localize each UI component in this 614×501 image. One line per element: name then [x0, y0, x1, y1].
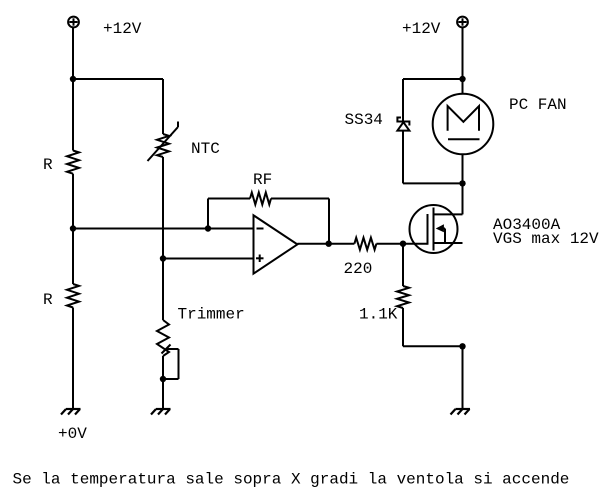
- wire node C down to trimmer: [162, 259, 164, 321]
- wire feedback right vertical: [328, 199, 330, 244]
- wire source node to ground: [462, 346, 464, 409]
- wire NTC branch top down to NTC: [162, 79, 164, 134]
- wire node A to NTC branch top: [73, 78, 163, 80]
- node fan bottom junction: [459, 180, 465, 186]
- wire node A down to R1: [72, 79, 74, 151]
- svg-text:SS34: SS34: [345, 111, 383, 129]
- node feedback tap junction: [205, 225, 211, 231]
- svg-text:Trimmer: Trimmer: [178, 306, 245, 324]
- svg-text:+12V: +12V: [402, 20, 441, 38]
- svg-text:R: R: [43, 291, 53, 309]
- terminal +12V left: [68, 17, 79, 28]
- wire node B down to R2: [72, 229, 74, 285]
- svg-text:R: R: [43, 156, 53, 174]
- diode D1 SS34: [397, 118, 409, 131]
- wire trimmer to ground: [162, 379, 164, 409]
- wire gate node down to 1.1K: [402, 244, 404, 286]
- op-amp U1: [254, 215, 298, 273]
- wire R2 to ground: [72, 308, 74, 410]
- node trimmer-wiper junction: [160, 376, 166, 382]
- wire fan top node to diode branch: [403, 78, 463, 80]
- wire node C to op-amp non-inverting input: [163, 258, 254, 260]
- svg-text:+0V: +0V: [58, 425, 87, 443]
- wire 220 to gate node: [376, 243, 403, 245]
- node output junction: [326, 241, 332, 247]
- resistor 220: [354, 238, 376, 250]
- node gate junction: [400, 241, 406, 247]
- node C junction: [160, 255, 166, 261]
- resistor 1.1K: [397, 286, 409, 308]
- wire motor to drain node: [462, 154, 464, 183]
- wire node B to op-amp inverting input: [73, 228, 254, 230]
- svg-text:Se la temperatura sale sopra X: Se la temperatura sale sopra X gradi la …: [13, 471, 570, 489]
- resistor R2: [67, 284, 79, 308]
- node fan top junction: [459, 76, 465, 82]
- ground (left, +0V): [61, 409, 81, 415]
- node B junction: [70, 225, 76, 231]
- wire trimmer body bottom: [162, 356, 164, 379]
- svg-text:1.1K: 1.1K: [359, 306, 398, 324]
- wire diode branch upper: [402, 79, 404, 122]
- wire R1 to node B: [72, 174, 74, 229]
- ground (MOSFET source): [451, 409, 471, 415]
- wire NTC to node C: [162, 157, 164, 259]
- resistor RF: [250, 193, 271, 205]
- node source junction: [459, 343, 465, 349]
- transistor Q1 AO3400A: [403, 205, 463, 253]
- wire op-amp output: [297, 243, 354, 245]
- wire fan top node to motor: [462, 79, 464, 94]
- wire feedback top right: [271, 198, 329, 200]
- svg-text:220: 220: [344, 260, 373, 278]
- wire terminal-left to node A: [72, 27, 74, 79]
- svg-text:VGS max 12V: VGS max 12V: [493, 230, 599, 248]
- wire terminal-right to fan top node: [462, 27, 464, 79]
- svg-text:RF: RF: [253, 171, 272, 189]
- motor M1 PC FAN: [433, 94, 494, 155]
- svg-text:NTC: NTC: [191, 140, 220, 158]
- wire diode branch lower: [403, 131, 463, 184]
- wire drain up to fan node: [462, 183, 464, 214]
- resistor R1: [67, 151, 79, 174]
- ground (trimmer): [151, 409, 171, 415]
- node A junction: [70, 76, 76, 82]
- terminal +12V right: [457, 17, 468, 28]
- wire feedback top left: [208, 198, 250, 200]
- wire feedback left vertical: [207, 199, 209, 229]
- svg-text:+12V: +12V: [103, 20, 142, 38]
- thermistor NTC: [148, 122, 179, 162]
- wire 1.1K to source node: [403, 308, 463, 346]
- svg-text:PC FAN: PC FAN: [509, 96, 567, 114]
- trimmer RV1: [157, 320, 179, 379]
